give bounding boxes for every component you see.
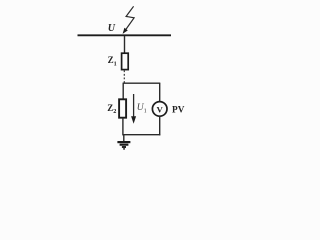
ground [117,135,130,149]
svg-text:U: U [108,23,116,34]
impedance Z2 [119,99,126,117]
svg-text:V: V [157,104,164,114]
lightning strike arrow [123,6,135,34]
svg-text:PV: PV [172,104,185,114]
wire Z2 to bottom [122,118,124,136]
bus line (overhead line U) [78,34,172,36]
bottom wire [123,134,160,136]
voltmeter PV (circle) [152,102,167,117]
node junction wire (horizontal) [123,82,161,84]
wire node to Z2 [122,83,124,99]
wire bus to Z1 [124,36,126,54]
wire Z1 to node (faint in scan) [123,70,125,83]
wire node to voltmeter [159,83,161,101]
wire voltmeter to bottom [159,116,161,135]
impedance Z1 [122,53,129,69]
voltage arrow U1 [131,94,136,124]
